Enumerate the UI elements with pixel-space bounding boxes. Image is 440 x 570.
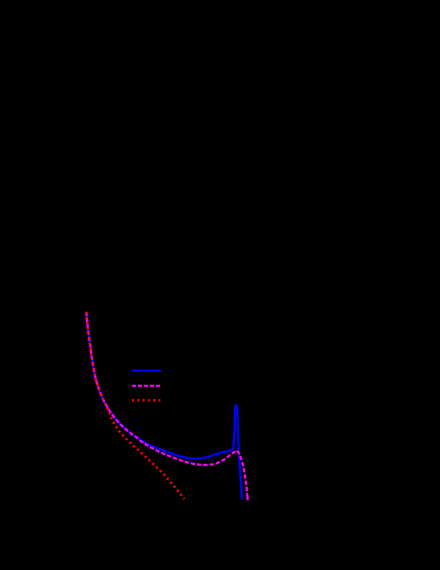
- curve magenta dashed: [86, 312, 247, 500]
- legend key blue solid line: [132, 370, 162, 372]
- legend key magenta dashed line: [132, 385, 162, 387]
- legend key red dotted line: [132, 399, 161, 402]
- curve blue solid (with spike): [86, 312, 242, 500]
- curve magenta final dash stub: [246, 497, 248, 500]
- curve red dotted: [86, 312, 184, 499]
